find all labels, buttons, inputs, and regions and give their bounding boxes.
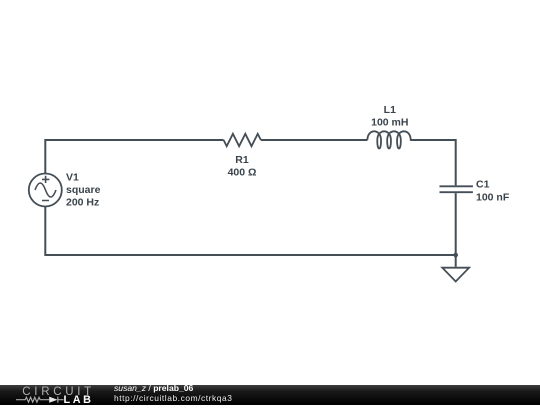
svg-text:400 Ω: 400 Ω (228, 167, 257, 179)
svg-text:LAB: LAB (64, 394, 94, 405)
svg-text:C1: C1 (476, 179, 490, 191)
svg-text:200 Hz: 200 Hz (66, 197, 99, 209)
svg-text:100 mH: 100 mH (371, 116, 408, 128)
svg-text:L1: L1 (384, 104, 396, 116)
svg-text:100 nF: 100 nF (476, 191, 510, 203)
svg-text:V1: V1 (66, 172, 79, 184)
svg-text:R1: R1 (235, 154, 249, 166)
svg-text:square: square (66, 184, 101, 196)
